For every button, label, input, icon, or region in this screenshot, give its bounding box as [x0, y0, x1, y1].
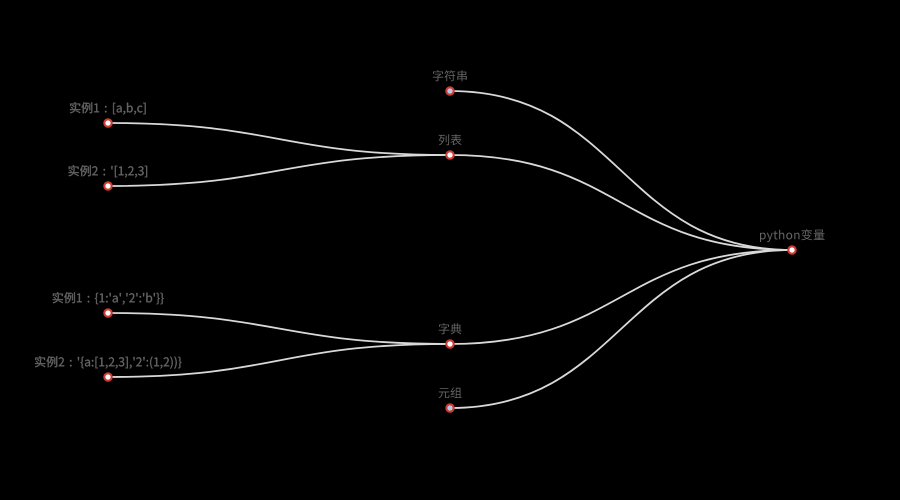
label 实例2：'{a:[1,2,3],'2':(1,2))}: [35, 356, 181, 369]
edge 字典 to 实例2 dict: [108, 344, 450, 377]
label 实例2：'[1,2,3]: [69, 165, 148, 178]
edge root to 元组: [450, 250, 792, 408]
label 元组: [439, 387, 462, 398]
node 实例1 dict: [104, 309, 111, 316]
node python变量 (root): [788, 246, 795, 253]
edge 列表 to 实例2 '[1,2,3]: [108, 155, 450, 186]
node 实例2 '[1,2,3]: [104, 182, 111, 189]
label 字符串: [433, 70, 467, 81]
label 字典: [439, 323, 462, 334]
edge root to 列表: [450, 155, 792, 250]
node 实例1 [a,b,c]: [104, 119, 111, 126]
label 列表: [439, 134, 462, 145]
node 列表: [446, 151, 453, 158]
edge 列表 to 实例1 [a,b,c]: [108, 123, 450, 155]
node 字典: [446, 340, 453, 347]
edge root to 字符串: [450, 91, 792, 250]
node 元组 (collapsed): [446, 404, 453, 411]
label python变量: [760, 229, 825, 242]
edge 字典 to 实例1 dict: [108, 313, 450, 344]
node 字符串 (collapsed): [446, 87, 453, 94]
label 实例1：{1:'a','2':'b'}}: [53, 292, 164, 305]
label 实例1：[a,b,c]: [70, 102, 146, 115]
edge root to 字典: [450, 250, 792, 344]
node 实例2 dict: [104, 373, 111, 380]
